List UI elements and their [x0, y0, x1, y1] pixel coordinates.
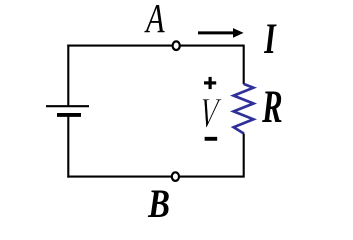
battery V1 short plate (-) — [57, 113, 81, 117]
battery V1 long plate (+) — [46, 105, 89, 107]
node A terminal circle — [173, 41, 180, 50]
current arrow shaft — [198, 31, 235, 34]
svg-text:I: I — [263, 16, 277, 64]
node B terminal circle — [172, 172, 179, 181]
minus sign (-) polarity — [205, 137, 218, 141]
wire left lower — [67, 115, 69, 178]
wire right lower — [243, 134, 245, 178]
svg-text:R: R — [261, 82, 282, 133]
wire left upper — [67, 45, 69, 107]
plus sign (+) polarity — [204, 77, 216, 89]
current arrow head — [233, 28, 244, 38]
svg-text:A: A — [144, 0, 165, 41]
wire right upper — [243, 45, 245, 85]
svg-text:B: B — [147, 181, 170, 221]
resistor R zigzag — [234, 84, 254, 134]
wire bottom (node B to corners) — [67, 176, 243, 178]
wire top (node A to corners) — [67, 45, 243, 47]
